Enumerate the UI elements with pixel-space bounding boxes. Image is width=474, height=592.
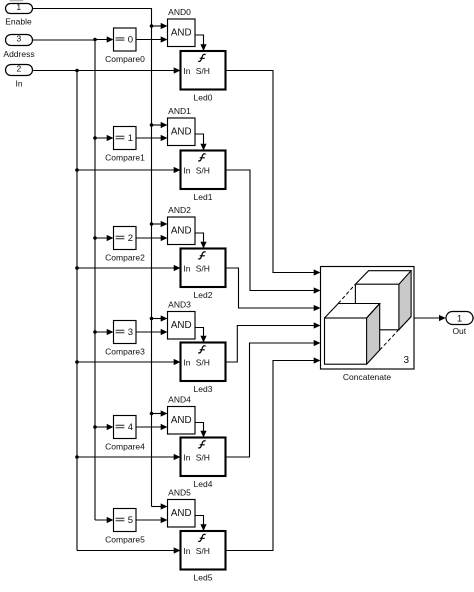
svg-text:Out: Out (452, 326, 466, 336)
svg-text:Compare2: Compare2 (105, 252, 145, 262)
svg-text:In: In (183, 66, 190, 76)
logic block AND2 (168, 205, 196, 245)
svg-text:3: 3 (128, 327, 133, 338)
wire AND1 output to Led1 trigger (195, 134, 207, 151)
wire Address branch to Compare5 input (95, 517, 114, 523)
comparator Compare0 (105, 28, 145, 64)
logic block AND5 (168, 488, 196, 528)
svg-text:S/H: S/H (196, 452, 210, 462)
outport 1 Out (446, 312, 473, 337)
wire Enable branch to AND5 input1 (152, 503, 168, 509)
logic block AND0 (168, 7, 196, 47)
wire AND3 output to Led3 trigger (195, 328, 207, 343)
screenshot artifact top-left grey sliver (10, 0, 24, 1)
svg-text:1: 1 (16, 2, 21, 12)
wire In branch to Led2 input (75, 265, 180, 271)
wire Compare2 output to AND2 input2 (136, 235, 168, 241)
svg-text:AND3: AND3 (168, 300, 191, 310)
svg-text:Compare1: Compare1 (105, 152, 145, 162)
svg-text:Compare0: Compare0 (105, 54, 145, 64)
wire Led4 output to Concatenate input5 (226, 340, 321, 457)
svg-text:1: 1 (128, 133, 133, 144)
svg-text:S/H: S/H (196, 263, 210, 273)
svg-text:Concatenate: Concatenate (343, 372, 391, 382)
svg-text:Led5: Led5 (194, 572, 213, 582)
wire Compare5 output to AND5 input2 (136, 517, 168, 523)
wire Led2 output to Concatenate input3 (226, 268, 321, 311)
sample-and-hold block Led0 (181, 51, 226, 102)
svg-text:In: In (183, 452, 190, 462)
comparator Compare3 (105, 321, 145, 357)
svg-text:2: 2 (128, 233, 133, 244)
wire AND0 output to Led0 trigger (195, 35, 207, 51)
comparator Compare1 (105, 127, 145, 163)
svg-text:3: 3 (17, 34, 22, 44)
Concatenate block (321, 267, 415, 382)
svg-text:S/H: S/H (196, 165, 210, 175)
inport 3 Address (3, 34, 34, 59)
wire Address branch to Compare3 input (93, 329, 113, 335)
svg-text:Led1: Led1 (194, 192, 213, 202)
svg-text:AND2: AND2 (168, 205, 191, 215)
svg-text:S/H: S/H (196, 66, 210, 76)
svg-text:In: In (15, 79, 22, 89)
wire Address bus (33, 40, 96, 520)
svg-text:AND: AND (171, 225, 192, 236)
wire In bus (33, 71, 78, 551)
svg-text:4: 4 (128, 422, 133, 433)
svg-text:Compare4: Compare4 (105, 441, 145, 451)
sample-and-hold block Led2 (181, 249, 226, 300)
svg-text:Enable: Enable (5, 17, 32, 27)
logic block AND1 (168, 106, 196, 146)
wire Address branch to Compare1 input (93, 135, 113, 141)
logic block AND4 (168, 395, 196, 435)
wire Compare1 output to AND1 input2 (136, 135, 168, 141)
svg-text:Led4: Led4 (194, 479, 213, 489)
svg-text:AND0: AND0 (168, 7, 191, 17)
sample-and-hold block Led1 (181, 151, 226, 202)
comparator Compare4 (105, 416, 145, 452)
svg-text:5: 5 (128, 515, 133, 526)
wire Led3 output to Concatenate input4 (226, 322, 321, 362)
svg-text:Led0: Led0 (194, 92, 213, 102)
svg-text:AND: AND (171, 27, 192, 38)
wire In branch to Led4 input (75, 454, 180, 460)
svg-text:S/H: S/H (196, 546, 210, 556)
wire AND2 output to Led2 trigger (195, 233, 207, 249)
wire Led0 output to Concatenate input1 (226, 71, 321, 276)
comparator Compare2 (105, 227, 145, 263)
svg-text:AND: AND (171, 320, 192, 331)
svg-text:Compare5: Compare5 (105, 534, 145, 544)
wire Enable branch to AND4 input1 (150, 410, 168, 416)
svg-text:In: In (183, 165, 190, 175)
svg-text:3: 3 (404, 355, 410, 366)
svg-text:In: In (183, 263, 190, 273)
svg-text:AND5: AND5 (168, 488, 191, 498)
svg-text:Address: Address (3, 49, 34, 59)
sample-and-hold block Led4 (181, 438, 226, 489)
svg-text:AND: AND (171, 508, 192, 519)
comparator Compare5 (105, 509, 145, 545)
wire Address branch to Compare2 input (93, 235, 113, 241)
wire Enable branch to AND2 input1 (150, 221, 168, 227)
wire Enable bus (33, 9, 152, 507)
wire Enable branch to AND1 input1 (150, 122, 168, 128)
svg-text:S/H: S/H (196, 357, 210, 367)
wire In branch to Led5 input (77, 547, 181, 553)
wire Address branch to Compare0 input (93, 36, 113, 42)
sample-and-hold block Led5 (181, 531, 226, 582)
sample-and-hold block Led3 (181, 343, 226, 394)
wire Address branch to Compare4 input (93, 424, 113, 430)
svg-text:In: In (183, 357, 190, 367)
svg-text:AND4: AND4 (168, 395, 191, 405)
wire In branch to Led1 input (75, 167, 180, 173)
svg-text:In: In (183, 546, 190, 556)
wire Led5 output to Concatenate input6 (226, 357, 321, 550)
wire In branch to Led3 input (75, 359, 180, 365)
wire stub at right image edge (473, 317, 474, 319)
logic block AND3 (168, 300, 196, 340)
svg-text:AND: AND (171, 415, 192, 426)
wire Led1 output to Concatenate input2 (226, 170, 321, 294)
svg-text:Led2: Led2 (194, 290, 213, 300)
wire In branch to Led0 input (75, 67, 180, 73)
svg-text:2: 2 (17, 64, 22, 74)
svg-text:1: 1 (457, 313, 462, 324)
wire Concatenate to Out (414, 315, 446, 321)
wire Enable branch to AND3 input1 (150, 315, 168, 321)
svg-text:AND1: AND1 (168, 106, 191, 116)
wire Compare4 output to AND4 input2 (136, 424, 168, 430)
wire Compare3 output to AND3 input2 (136, 329, 168, 335)
svg-text:Compare3: Compare3 (105, 346, 145, 356)
inport 1 Enable (5, 2, 32, 27)
svg-text:0: 0 (128, 35, 133, 46)
svg-text:Led3: Led3 (194, 384, 213, 394)
svg-text:AND: AND (171, 126, 192, 137)
wire AND5 output to Led5 trigger (195, 516, 207, 532)
inport 2 In (6, 64, 33, 89)
wire Compare0 output to AND0 input2 (136, 36, 168, 42)
wire AND4 output to Led4 trigger (195, 423, 207, 438)
wire Enable branch to AND0 input1 (150, 23, 168, 29)
